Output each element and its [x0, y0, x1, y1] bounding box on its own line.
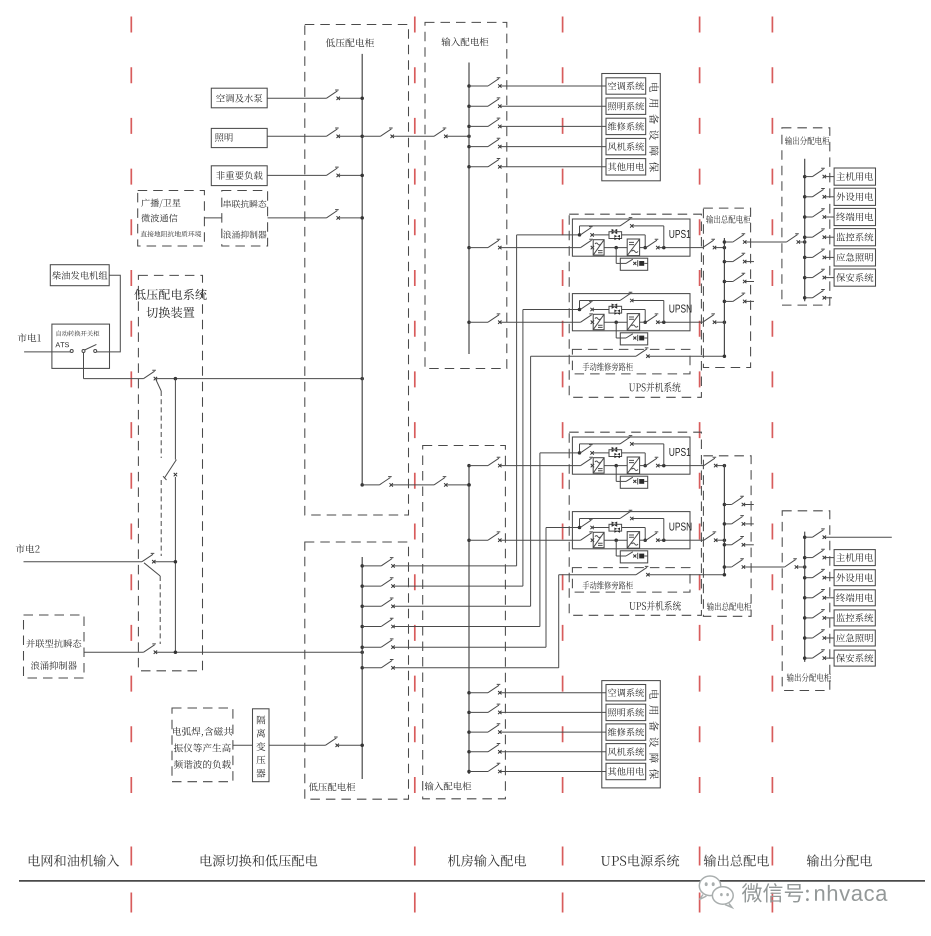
load row 风机系统 bottom [467, 750, 471, 754]
UPSN battery feed [615, 540, 617, 556]
vertical label 保障设备用电 bottom [649, 690, 658, 699]
bus LV cabinet 2 [361, 557, 363, 779]
node feed at LV bus2 [360, 650, 364, 654]
wire mains1 to ATS [24, 351, 70, 353]
UPS1 bypass switch [620, 218, 632, 226]
label UPS并机系统 group1 [629, 383, 635, 391]
interlock link from Q1 [156, 380, 161, 391]
feeder row to UPS1 group1 [467, 246, 471, 250]
tie switch A [380, 128, 392, 136]
node suppressor wire at vertical tie [174, 650, 178, 654]
bus output main cabinet 2 [723, 465, 725, 575]
load row 监控系统 top [803, 235, 807, 239]
switch 照明 feeder [326, 128, 338, 136]
bypass join node main cabinet 1 [723, 354, 727, 358]
stub feeder row output dist cabinet 2 [803, 535, 807, 539]
zone label 输出总配电 [704, 854, 716, 866]
diesel generator box 柴油发电机组 [50, 265, 109, 286]
load row 应急照明 bottom [803, 636, 807, 640]
cabinet box 输入配电柜 top [425, 22, 507, 368]
switch Q2 in vertical tie [163, 460, 176, 480]
UPSN rectifier input switch [581, 532, 593, 540]
load box 空调及水泵 [211, 88, 267, 108]
zone label 电源切换和低压配电 [201, 854, 212, 866]
load row 主机用电 top [803, 175, 807, 179]
UPS1 DC link wire [604, 247, 627, 249]
UPS1 rectifier [593, 240, 604, 255]
output switch UPSN group2 at main cabinet [704, 532, 716, 540]
UPS unit UPSN box [572, 512, 690, 549]
wire 空调及水泵 feeder [267, 97, 326, 99]
wire ATS feed to LV bus [84, 378, 144, 380]
maintenance bypass wire group1 [531, 355, 637, 357]
load row 保安系统 top [803, 276, 807, 280]
UPS1 rectifier [593, 458, 604, 473]
cabinet box 低压配电系统切换装置 [138, 275, 202, 670]
UPS1 rectifier input switch [581, 239, 593, 247]
zone label 电网和油机输入 [29, 854, 40, 866]
load row 风机系统 top [467, 145, 471, 149]
maintenance bypass switch group1 [636, 348, 648, 356]
UPS1 inverter output wire [640, 247, 646, 249]
wire transformer to bus2 [269, 744, 325, 746]
load row 终端用电 bottom [803, 596, 807, 600]
riser 1 vertical [516, 235, 518, 566]
vertical label 保障设备用电 top [649, 83, 658, 92]
bus input cabinet 2 [468, 466, 470, 774]
UPS1 static bypass input node [578, 451, 582, 455]
bus input cabinet 1 [468, 63, 470, 355]
UPSN static transfer switch symbol [609, 524, 622, 531]
load row 其他用电 top [467, 165, 471, 169]
UPS1 static transfer switch symbol [609, 450, 622, 457]
zone band rule line [19, 880, 925, 882]
UPSN rectifier [593, 532, 604, 547]
UPS1 DC link wire [604, 465, 627, 467]
tie2 switch B [434, 477, 446, 485]
tie2 switch A [379, 477, 391, 485]
UPSN bypass switch [620, 292, 632, 300]
switch Q1 on ATS feed [144, 370, 156, 378]
cabinet box 输出分配电柜 bottom [782, 511, 830, 691]
static bypass feed to UPS1 group1 [517, 234, 581, 236]
riser feeder row 5 from LV bus2 [360, 645, 364, 649]
zone label 输出分配电 [807, 854, 819, 866]
bus output main cabinet 1 [723, 238, 725, 356]
bypass join node main cabinet 2 [723, 573, 727, 577]
group box guaranteed loads bottom [602, 681, 661, 788]
UPS1 output switch [646, 457, 658, 465]
UPS1 group1 output wire [690, 247, 703, 249]
wire mains2 [24, 561, 143, 563]
surge suppressor box 并联型抗瞬态浪涌抑制器 [24, 615, 85, 678]
load row 其他用电 bottom [467, 770, 471, 774]
label 市电2 [16, 544, 25, 553]
tie2 node at input cabinet 2 bus [467, 483, 471, 487]
wire 照明 feeder [267, 135, 326, 137]
UPS1 static bypass input node [578, 233, 582, 237]
label 市电1 [18, 333, 27, 342]
interlock dashed link lower [160, 480, 162, 556]
wire TVSS feeder [268, 217, 327, 219]
wire generator to ATS [97, 275, 121, 352]
riser 5 vertical [545, 528, 547, 648]
UPS unit UPS1 box [572, 437, 690, 474]
load row 保安系统 bottom [803, 656, 807, 660]
maintenance bypass cabinet 手动维修旁路柜 group2 [572, 568, 690, 593]
UPSN battery box [620, 333, 647, 345]
wire 广播 box to TVSS [204, 217, 221, 219]
riser feeder row 4 from LV bus2 [360, 625, 364, 629]
harmonic loads box 电弧焊 [172, 708, 233, 782]
UPSN inverter output wire [640, 321, 646, 323]
load row 照明系统 bottom [467, 711, 471, 715]
UPS1 group2 output wire [690, 465, 704, 467]
switch 空调及水泵 feeder [326, 90, 338, 98]
cabinet box 低压配电柜 bottom [305, 542, 409, 799]
UPSN internal bypass top line [580, 518, 621, 520]
UPSN static bypass input node [578, 526, 582, 530]
switch 非重要负载 feeder [326, 167, 338, 175]
riser 2 vertical [522, 310, 524, 587]
load row 空调系统 bottom [467, 691, 471, 695]
riser feeder row 6 from LV bus2 [360, 666, 364, 670]
UPS parallel system group2 outer box [569, 432, 701, 615]
ATS box 自动转换开关柜 [52, 324, 110, 368]
UPS unit UPS1 box [572, 219, 690, 256]
spare row 1 output main cabinet 1 [723, 260, 727, 264]
UPS1 static line drop to output [644, 235, 646, 248]
interlock link from Q3 [144, 563, 160, 576]
cabinet box 输出总配电柜 bottom [703, 456, 751, 617]
ATS changeover switch contacts [70, 350, 73, 353]
UPS1 output switch [646, 239, 658, 247]
maintenance bypass switch group2 [636, 566, 648, 574]
load row 应急照明 top [803, 256, 807, 260]
UPS1 bypass join node [662, 246, 666, 250]
UPSN inverter [627, 314, 639, 331]
load row 照明系统 top [467, 104, 471, 108]
UPS1 internal bypass top line [580, 443, 621, 445]
UPSN output switch [646, 314, 658, 322]
UPSN inverter output wire [640, 539, 646, 541]
switch TVSS feeder [326, 210, 338, 218]
UPS parallel system group1 outer box [569, 214, 701, 397]
cabinet box 低压配电柜 top [305, 25, 409, 516]
cabinet box 输出总配电柜 top [703, 208, 750, 367]
spare row 2 output main cabinet 1 [723, 280, 727, 284]
interlock dashed link upper [160, 391, 162, 458]
feeder row to UPSN group2 [467, 538, 471, 542]
load box 非重要负载 [211, 166, 267, 186]
UPS1 internal bypass top line [580, 225, 621, 227]
tie wire bus1 to input cabinet 2 [360, 483, 364, 487]
output switch UPSN group1 at main cabinet [703, 314, 715, 322]
load row 维修系统 top [467, 125, 471, 128]
UPSN static line drop to output [644, 528, 646, 541]
vertical tie wire of changeover [174, 379, 176, 460]
UPSN static bypass input node [578, 308, 582, 312]
UPSN DC link wire [604, 539, 627, 541]
spare row 2 output main cabinet 2 [723, 522, 727, 526]
switch Q4 on suppressor feed [144, 644, 156, 652]
spare row output dist cabinet 1 [803, 296, 807, 300]
UPS1 rectifier input switch [581, 457, 593, 465]
riser 4 vertical [539, 453, 541, 627]
load row 主机用电 bottom [803, 556, 807, 560]
cabinet box 输入配电柜 bottom [423, 446, 506, 799]
output switch UPS1 group1 at main cabinet [703, 239, 715, 247]
load row 外设用电 top [803, 195, 807, 199]
UPS1 battery feed [615, 466, 617, 482]
load row 维修系统 bottom [467, 730, 471, 734]
UPSN bypass join node [662, 538, 666, 542]
node ATS feed at LV bus1 [360, 377, 364, 381]
UPS1 battery feed [615, 248, 617, 264]
wire 非重要负载 feeder [267, 174, 326, 176]
UPSN group2 output wire [690, 539, 704, 541]
wire 电弧焊 to transformer [233, 744, 253, 746]
feeder row to UPSN group1 [467, 320, 471, 324]
load row 空调系统 top [467, 84, 471, 88]
UPSN internal bypass top line [580, 300, 621, 302]
UPS1 inverter [627, 239, 639, 256]
label UPS并机系统 group2 [629, 602, 635, 610]
switch harmonic feeder [325, 737, 337, 745]
feeder row to UPS1 group2 [467, 464, 471, 468]
output switch UPS1 group2 at main cabinet [704, 457, 716, 465]
node mains2 at vertical tie [174, 560, 178, 564]
zone separator red dashed lines [130, 17, 132, 801]
zone label 机房输入配电 [448, 855, 460, 867]
UPSN rectifier [593, 314, 604, 329]
riser feeder row 2 from LV bus2 [360, 584, 364, 588]
UPSN group1 output wire [690, 321, 703, 323]
riser feeder row 3 from LV bus2 [360, 605, 364, 609]
riser feeder row 1 from LV bus2 [360, 564, 364, 568]
UPSN battery box [620, 551, 647, 563]
cabinet box 输出分配电柜 top [782, 128, 830, 305]
box 广播/卫星 微波通信 loads [138, 191, 205, 247]
UPS1 static line drop to output [644, 453, 646, 466]
riser 6 vertical [558, 575, 560, 668]
UPSN output switch [646, 532, 658, 540]
UPSN DC link wire [604, 321, 627, 323]
UPSN static line switch [580, 301, 592, 309]
dist cabinet 2 input switch [785, 559, 797, 567]
UPSN inverter [627, 532, 639, 549]
maintenance bypass cabinet 手动维修旁路柜 group1 [572, 349, 690, 374]
box 串联抗瞬态浪涌抑制器 [222, 191, 268, 247]
wire ATS output drop [83, 353, 85, 379]
UPS1 inverter [627, 457, 639, 474]
bus output dist cabinet 2 [804, 532, 806, 662]
wechat id text 微信号:nhvaca [742, 883, 762, 902]
dist cabinet 1 input switch [787, 234, 799, 242]
UPS1 static line switch [580, 227, 592, 235]
spare row 3 output main cabinet 2 [723, 543, 727, 547]
load box 照明 [211, 128, 267, 147]
feed row to dist cabinet 1 [723, 240, 727, 244]
static bypass feed to UPSN group2 [546, 527, 580, 529]
zone label UPS电源系统 [601, 856, 610, 866]
node on ATS feed wire [174, 377, 178, 381]
load row 监控系统 bottom [803, 616, 807, 620]
UPS1 battery box [620, 476, 647, 488]
tie wire bus1 to input cabinet 1 [362, 135, 380, 137]
UPS1 inverter output wire [640, 465, 646, 467]
UPSN static line switch [580, 519, 592, 527]
maintenance bypass wire group2 [559, 574, 636, 576]
UPSN static transfer switch symbol [609, 306, 622, 313]
UPSN battery feed [615, 322, 617, 338]
bus output dist cabinet 1 [804, 159, 806, 301]
static bypass feed to UPSN group1 [523, 309, 580, 311]
UPSN bypass join node [662, 320, 666, 324]
UPS1 static transfer switch symbol [609, 232, 622, 239]
wechat logo bubbles [699, 876, 733, 908]
UPS1 static line switch [580, 445, 592, 453]
UPS1 bypass switch [620, 436, 632, 444]
switch Q3 on mains2 [142, 553, 154, 561]
tie switch B [434, 128, 446, 136]
static bypass feed to UPS1 group2 [540, 452, 580, 454]
spare row 3 output main cabinet 1 [723, 300, 727, 304]
feed row to dist cabinet 2 [723, 565, 727, 569]
isolation transformer box 隔离变压器 [253, 709, 270, 782]
wire surge suppressor to bus2 [84, 651, 144, 653]
spare row 1 output main cabinet 2 [723, 503, 727, 507]
UPS1 bypass join node [662, 464, 666, 468]
riser 3 vertical [530, 356, 532, 606]
load row 外设用电 bottom [803, 576, 807, 580]
UPS unit UPSN box [572, 294, 690, 331]
UPSN bypass switch [620, 510, 632, 518]
UPSN static line drop to output [644, 310, 646, 323]
UPS1 battery box [620, 258, 647, 270]
UPSN rectifier input switch [581, 314, 593, 322]
group box guaranteed loads top [602, 74, 661, 181]
bus LV cabinet 1 [361, 54, 363, 485]
load row 终端用电 top [803, 215, 807, 219]
